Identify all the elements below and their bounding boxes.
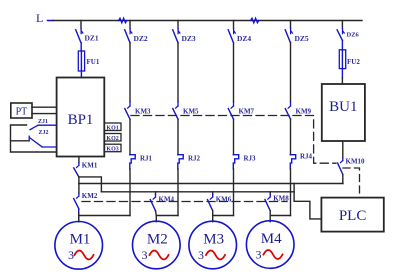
wire M1 feeder horizontal <box>79 215 130 217</box>
breaker DZ6 <box>337 21 359 41</box>
svg-text:DZ6: DZ6 <box>347 32 360 39</box>
dashed link KM9 to KM10 <box>293 116 336 164</box>
wire RJ4 down to M4 feeder <box>290 169 292 216</box>
svg-text:M1: M1 <box>70 231 91 247</box>
contactor KM3 <box>125 43 151 119</box>
wire L top bus <box>53 20 362 22</box>
wire KM7 to RJ3 <box>233 119 235 155</box>
motor M1 <box>55 222 103 270</box>
wire break zigzag 2 <box>251 18 259 23</box>
svg-text:FU1: FU1 <box>87 58 100 66</box>
thermal relay RJ2 <box>178 155 201 169</box>
svg-text:M4: M4 <box>261 231 282 247</box>
svg-text:KM5: KM5 <box>183 108 199 116</box>
wire KM1 to bus1 <box>78 177 80 184</box>
wire KM3 to RJ1 <box>129 119 131 155</box>
fuse FU1 <box>78 51 100 78</box>
contactor KM6 <box>208 192 232 211</box>
dashed interlock link KM2-KM4-KM6-KM8 <box>82 201 287 203</box>
motor M3 <box>189 221 237 269</box>
breaker DZ2 <box>125 21 148 44</box>
svg-text:3: 3 <box>68 248 74 262</box>
dashed interlock link KM3-KM5-KM7-KM9 <box>131 115 290 117</box>
wire KM2 to M1 <box>78 209 80 222</box>
thermal relay RJ3 <box>233 155 256 169</box>
wire RJ3 down to M3 feeder <box>233 169 235 216</box>
wire KM8 to M4 <box>269 211 271 222</box>
svg-text:DZ1: DZ1 <box>85 34 99 43</box>
svg-text:PT: PT <box>16 107 28 118</box>
svg-text:KO3: KO3 <box>106 147 118 153</box>
svg-text:DZ5: DZ5 <box>295 34 309 43</box>
breaker DZ4 <box>228 21 251 44</box>
contactor KM1 <box>74 157 98 178</box>
wire KM10 to bus1 <box>342 175 344 184</box>
svg-text:KM10: KM10 <box>346 158 366 166</box>
breaker DZ5 <box>285 21 309 44</box>
svg-text:3: 3 <box>142 248 148 262</box>
wire RJ1 down to M1 feeder <box>129 169 131 216</box>
wire bus1 <box>79 183 343 185</box>
fuse FU2 <box>339 50 360 84</box>
svg-text:DZ3: DZ3 <box>182 34 196 43</box>
brake unit box BU1 <box>322 84 365 141</box>
wire PT to BP1 lower <box>32 113 57 115</box>
svg-text:FU2: FU2 <box>347 58 360 66</box>
svg-text:3: 3 <box>198 248 204 262</box>
wire bus2 <box>101 191 294 193</box>
wire KM9 to RJ4 <box>290 119 292 155</box>
svg-text:KM2: KM2 <box>82 192 98 200</box>
svg-text:RJ2: RJ2 <box>188 155 201 163</box>
wire KM1 branch to bus2 <box>79 177 102 192</box>
wire KM4 to M2 <box>155 211 158 222</box>
dashed link KM10 to PLC <box>343 168 360 198</box>
output module KO2 <box>104 134 121 142</box>
wire RJ2 down to M2 feeder <box>177 169 179 216</box>
wire bus to PLC input <box>294 184 321 219</box>
svg-text:DZ2: DZ2 <box>134 34 148 43</box>
wire KM6 to M3 <box>212 211 214 222</box>
wire break zigzag 1 <box>119 18 127 23</box>
svg-text:KO2: KO2 <box>106 136 118 142</box>
svg-text:M3: M3 <box>203 231 224 247</box>
wire PT to BP1 upper <box>32 106 57 108</box>
inverter box BP1 <box>57 78 105 157</box>
contactor KM10 <box>338 141 365 175</box>
contactor KM5 <box>173 43 199 119</box>
svg-text:3: 3 <box>256 247 262 261</box>
svg-text:RJ1: RJ1 <box>140 155 153 163</box>
svg-text:ZJ1: ZJ1 <box>38 119 48 125</box>
svg-text:BP1: BP1 <box>68 112 94 128</box>
svg-text:KM7: KM7 <box>239 108 255 116</box>
output module KO3 <box>104 144 121 152</box>
svg-text:ZJ2: ZJ2 <box>39 130 49 136</box>
contactor KM9 <box>285 43 311 119</box>
motor M4 <box>246 221 294 269</box>
svg-text:DZ4: DZ4 <box>237 34 251 43</box>
svg-text:RJ4: RJ4 <box>300 153 313 161</box>
svg-text:L: L <box>36 11 43 25</box>
thermal relay RJ1 <box>130 155 153 169</box>
box PT <box>11 103 32 118</box>
wire M4 feeder horizontal <box>270 215 290 217</box>
breaker DZ1 <box>76 21 99 43</box>
thermal relay RJ4 <box>290 153 312 169</box>
switch ZJ2 <box>29 130 56 147</box>
contactor KM8 <box>265 192 289 211</box>
contactor KM7 <box>228 43 254 119</box>
svg-text:KM9: KM9 <box>296 108 312 116</box>
breaker DZ3 <box>173 21 196 44</box>
svg-text:KM3: KM3 <box>135 108 151 116</box>
wire M3 feeder horizontal <box>213 215 234 217</box>
switch ZJ1 <box>30 119 57 130</box>
svg-text:KO1: KO1 <box>106 125 118 131</box>
wire DZ6 to FU2 <box>341 40 343 49</box>
svg-text:KM1: KM1 <box>82 162 98 170</box>
svg-text:KM4: KM4 <box>159 196 175 204</box>
output module KO1 <box>104 123 121 131</box>
wire KM5 to RJ2 <box>177 119 179 155</box>
wire DZ1 to FU1 <box>80 43 82 51</box>
svg-text:PLC: PLC <box>339 208 367 224</box>
motor M2 <box>133 221 181 269</box>
wire L bus lead-in (blue) <box>48 20 54 22</box>
contactor KM2 <box>74 184 98 209</box>
svg-text:M2: M2 <box>147 231 168 247</box>
contactor KM4 <box>150 192 174 211</box>
svg-text:RJ3: RJ3 <box>244 155 257 163</box>
wire left input bracket <box>11 125 57 152</box>
svg-text:BU1: BU1 <box>329 99 357 115</box>
controller box PLC <box>321 198 383 232</box>
svg-text:KM6: KM6 <box>216 196 232 204</box>
wire M2 feeder horizontal <box>156 215 178 217</box>
